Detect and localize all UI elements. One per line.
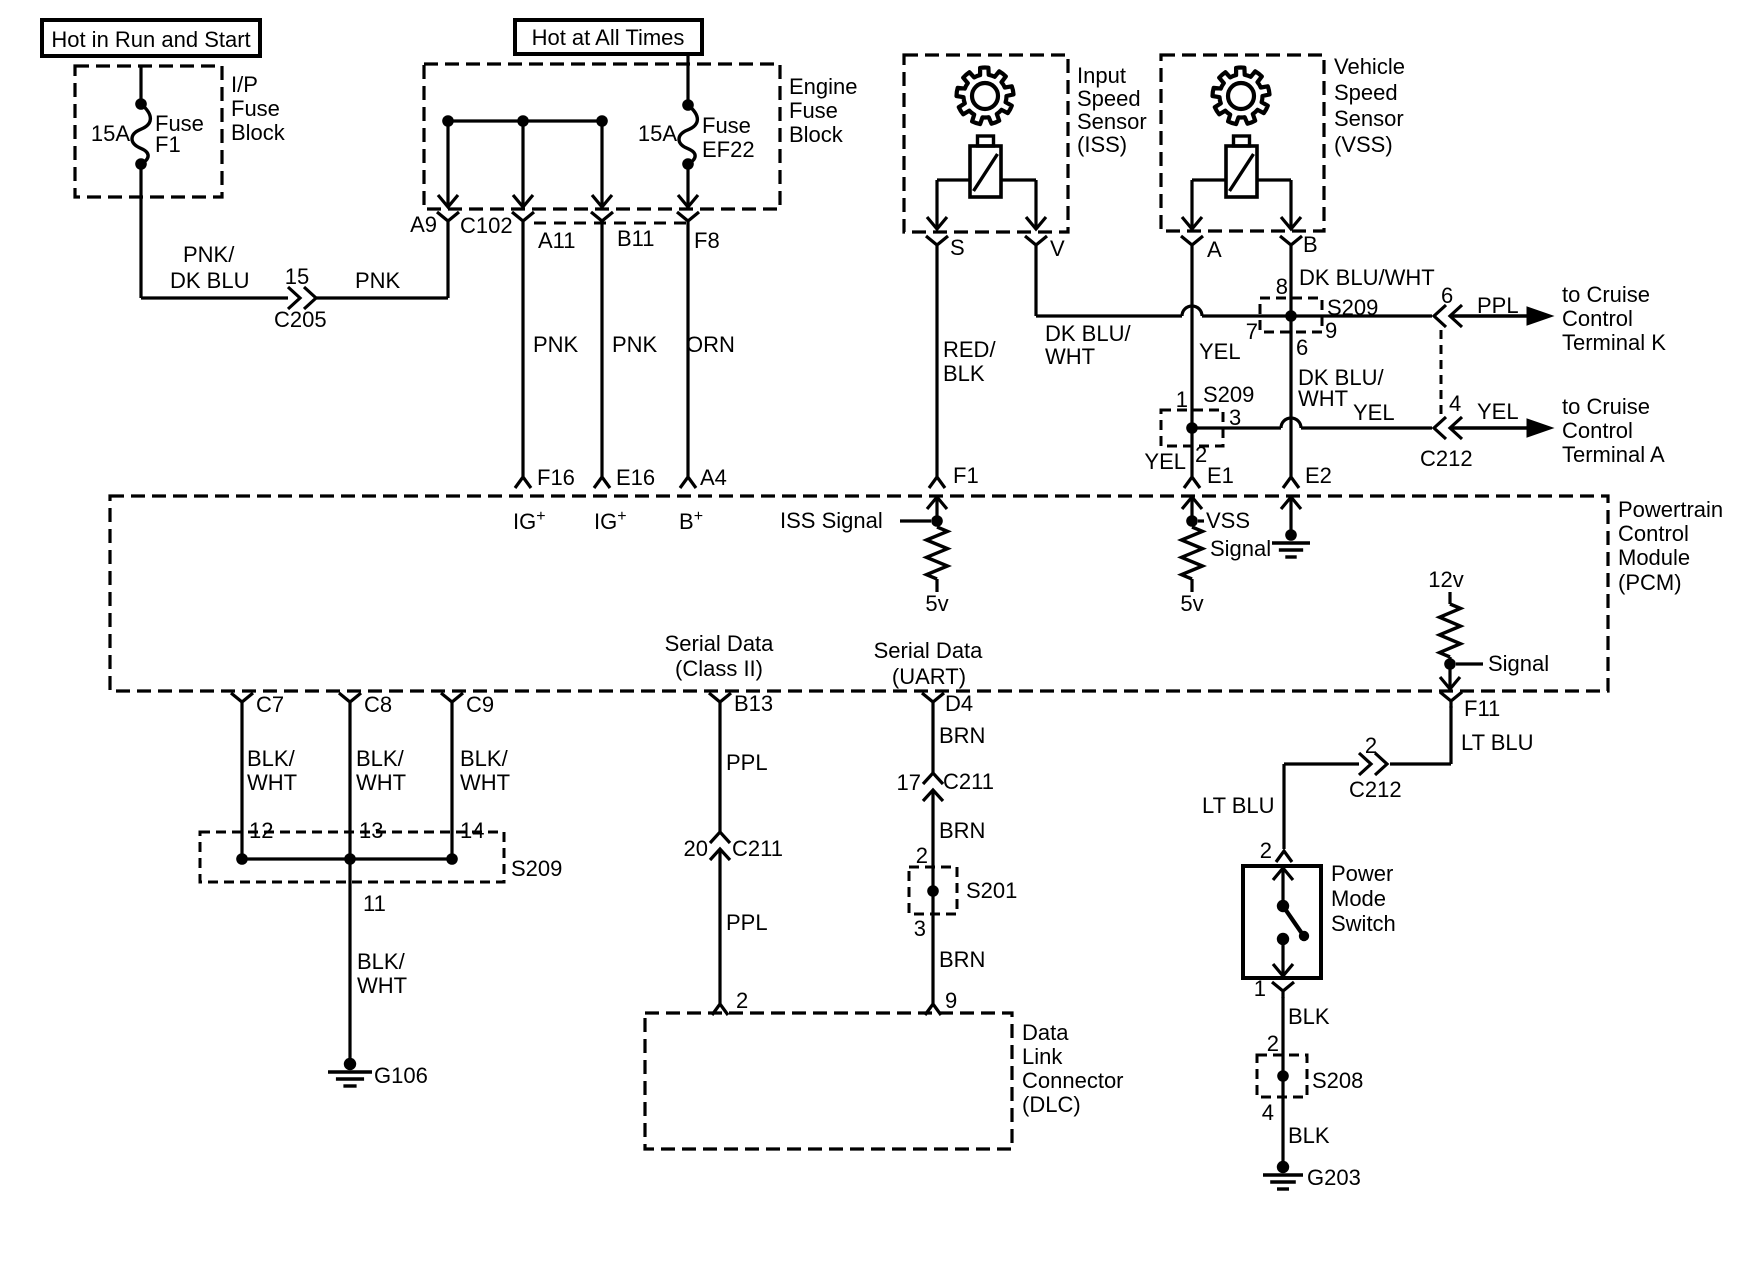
svg-text:Signal: Signal: [1488, 651, 1549, 676]
resistor 12v pullup: [1440, 604, 1461, 657]
wire BRN S201 to DLC: [931, 891, 934, 999]
Data Link Connector dashed box: [645, 1013, 1012, 1149]
svg-text:F1: F1: [953, 463, 979, 488]
svg-text:Hot at All Times: Hot at All Times: [532, 25, 685, 50]
svg-text:to Cruise: to Cruise: [1562, 282, 1650, 307]
label B11: [617, 226, 655, 251]
label 9 pin DLC: [945, 988, 957, 1013]
wire RED/BLK S to F1: [935, 252, 938, 472]
connector pin F16: [515, 472, 531, 488]
svg-text:Sensor: Sensor: [1334, 106, 1404, 131]
svg-text:S209: S209: [511, 856, 562, 881]
label B13: [734, 691, 773, 716]
wire PPL B13 upper: [718, 709, 721, 832]
splice S209 main dashed box: [200, 832, 504, 882]
svg-text:PNK: PNK: [612, 332, 658, 357]
switch arrow out: [1273, 939, 1293, 976]
svg-text:WHT: WHT: [356, 770, 406, 795]
svg-text:PNK: PNK: [533, 332, 579, 357]
svg-text:11: 11: [363, 891, 386, 916]
label 5v F1: [925, 591, 948, 616]
resistor 5v pullup F1: [927, 527, 948, 592]
svg-text:LT BLU: LT BLU: [1202, 793, 1275, 818]
svg-text:2: 2: [1365, 733, 1377, 758]
label Fuse EF22: [702, 113, 755, 162]
wire PPL B13 lower: [718, 849, 721, 999]
svg-text:S209: S209: [1203, 382, 1254, 407]
label BRN mid: [939, 818, 985, 843]
svg-text:(Class II): (Class II): [675, 656, 763, 681]
wire BLK switch to S208: [1281, 997, 1284, 1076]
svg-text:A11: A11: [538, 228, 576, 253]
connector pin 9 DLC: [925, 999, 941, 1015]
arrow out of PCM at F11: [1440, 664, 1460, 689]
I/P Fuse Block dashed box: [75, 66, 222, 197]
label Fuse F1: [155, 111, 204, 157]
VSS sensor element: [1226, 136, 1257, 197]
svg-text:B: B: [1303, 232, 1318, 257]
svg-text:YEL: YEL: [1199, 339, 1241, 364]
svg-text:BLK: BLK: [1288, 1004, 1330, 1029]
label F1: [953, 463, 979, 488]
label BLK/WHT G106: [357, 949, 407, 998]
label ISS Signal: [780, 508, 883, 533]
svg-text:to Cruise: to Cruise: [1562, 394, 1650, 419]
svg-text:15: 15: [285, 264, 309, 289]
switch lever: [1283, 906, 1309, 941]
junction dot bus A11: [517, 115, 529, 127]
svg-text:2: 2: [916, 843, 928, 868]
svg-text:C211: C211: [732, 836, 783, 861]
label PNK/DK BLU: [170, 242, 249, 293]
wire 12v to resistor: [1448, 592, 1451, 604]
Engine Fuse Block dashed box: [424, 64, 780, 209]
connector C102 pin A11: [512, 212, 534, 228]
wire ISS Signal tick: [900, 519, 931, 522]
wire PNK B11 to E16: [600, 228, 603, 472]
label Input Speed Sensor (ISS): [1077, 63, 1147, 157]
svg-text:6: 6: [1441, 283, 1453, 308]
wire BLK/WHT to G106: [348, 859, 351, 1060]
label 2 pin C212: [1365, 733, 1377, 758]
label PPL upper: [726, 750, 768, 775]
label PNK wire F16: [533, 332, 579, 357]
svg-text:9: 9: [1325, 318, 1337, 343]
label S209 main: [511, 856, 562, 881]
label C212 cruise: [1420, 446, 1473, 471]
svg-text:YEL: YEL: [1477, 399, 1519, 424]
wire YEL splice to E1: [1190, 428, 1193, 472]
label S209 upper: [1327, 295, 1378, 320]
connector pin C7: [231, 693, 253, 709]
label 9 splice S209: [1325, 318, 1337, 343]
junction dot fuse F1 top: [135, 98, 147, 110]
fuse F1 element: [132, 104, 150, 164]
label 3 pin S201: [914, 916, 926, 941]
svg-text:(PCM): (PCM): [1618, 570, 1682, 595]
svg-text:5v: 5v: [1180, 591, 1203, 616]
wire YEL A to splice S209 lower: [1190, 252, 1193, 428]
label Serial Data Class II: [665, 631, 775, 681]
wire PNK A11 to F16: [521, 228, 524, 472]
splice S209 lower dashed box: [1161, 410, 1223, 446]
svg-text:PNK/: PNK/: [183, 242, 235, 267]
svg-text:Module: Module: [1618, 545, 1690, 570]
svg-text:Block: Block: [789, 122, 844, 147]
svg-text:G106: G106: [374, 1063, 428, 1088]
splice dot S209 upper: [1285, 310, 1297, 322]
connector C102 pin F8: [677, 212, 699, 228]
ISS sensor element: [970, 136, 1001, 197]
svg-text:Terminal K: Terminal K: [1562, 330, 1666, 355]
svg-text:BLK/: BLK/: [247, 746, 296, 771]
ground dot G203: [1277, 1161, 1289, 1173]
svg-text:Terminal A: Terminal A: [1562, 442, 1665, 467]
connector pin F1: [929, 472, 945, 488]
svg-text:Speed: Speed: [1334, 80, 1398, 105]
label S208: [1312, 1068, 1363, 1093]
splice dot S209 pin14: [446, 853, 458, 865]
label to Cruise Control Terminal A: [1562, 394, 1665, 467]
label C211 UART: [943, 769, 994, 794]
wire DK BLU/WHT S209 to C212 pin6: [1291, 314, 1432, 317]
svg-text:F1: F1: [155, 132, 181, 157]
svg-text:(VSS): (VSS): [1334, 132, 1393, 157]
label A: [1207, 237, 1222, 262]
switch arrow in: [1273, 868, 1293, 901]
wire BRN D4 upper: [931, 709, 934, 773]
svg-text:Signal: Signal: [1210, 536, 1271, 561]
label 6 below S209: [1296, 335, 1308, 360]
label A4: [700, 465, 727, 490]
label IG+ F16: [513, 508, 546, 534]
svg-text:C212: C212: [1420, 446, 1473, 471]
label 6 pin C212: [1441, 283, 1453, 308]
bus wire in engine fuse block: [448, 119, 602, 122]
svg-text:PPL: PPL: [726, 750, 768, 775]
ground symbol G106: [328, 1072, 372, 1086]
VSS gear icon: [1213, 67, 1270, 124]
splice dot S208: [1277, 1070, 1289, 1082]
label ORN wire A4: [686, 332, 735, 357]
svg-text:Fuse: Fuse: [231, 96, 280, 121]
svg-text:YEL: YEL: [1144, 449, 1186, 474]
svg-text:A: A: [1207, 237, 1222, 262]
connector C212 pin 6 chevrons: [1434, 305, 1462, 327]
bus wire splice S209: [242, 857, 452, 860]
label Vehicle Speed Sensor (VSS): [1334, 54, 1405, 157]
svg-text:3: 3: [914, 916, 926, 941]
junction dot fuse EF22 top: [682, 99, 694, 111]
svg-text:YEL: YEL: [1353, 400, 1395, 425]
label G106: [374, 1063, 428, 1088]
label BLK upper: [1288, 1004, 1330, 1029]
splice dot S209 lower: [1186, 422, 1198, 434]
label 2 pin S208: [1267, 1031, 1279, 1056]
svg-text:F11: F11: [1464, 696, 1500, 721]
junction dot bus B11: [596, 115, 608, 127]
svg-text:DK BLU/: DK BLU/: [1045, 321, 1131, 346]
connector C102 dashed line: [534, 222, 687, 225]
label RED/BLK: [943, 337, 996, 386]
connector C205 chevrons: [288, 287, 316, 309]
connector C212 dashed link: [1440, 330, 1443, 420]
connector pin A4: [680, 472, 696, 488]
junction dot F1 signal: [931, 515, 943, 527]
label 15A fuse EF22: [638, 121, 677, 146]
label I/P Fuse Block: [231, 72, 286, 145]
connector pin 1 switch: [1272, 982, 1294, 998]
svg-text:Switch: Switch: [1331, 911, 1396, 936]
arrow to Cruise Control Terminal K: [1452, 307, 1553, 325]
connector pin 2 switch: [1276, 851, 1292, 862]
svg-text:Serial Data: Serial Data: [874, 638, 984, 663]
connector pin E16: [594, 472, 610, 488]
header box: Hot in Run and Start: [42, 20, 260, 56]
label 2 pin E1: [1195, 442, 1207, 467]
label F11 pin: [1464, 696, 1500, 721]
wire ORN F8 to A4: [686, 228, 689, 472]
svg-text:7: 7: [1246, 319, 1258, 344]
label YEL wire A: [1199, 339, 1241, 364]
svg-text:Hot in Run and Start: Hot in Run and Start: [51, 27, 250, 52]
ISS gear icon: [957, 67, 1014, 124]
svg-text:Connector: Connector: [1022, 1068, 1124, 1093]
svg-text:(DLC): (DLC): [1022, 1092, 1081, 1117]
label Serial Data UART: [874, 638, 984, 689]
splice dot S209 pin12: [236, 853, 248, 865]
svg-text:Vehicle: Vehicle: [1334, 54, 1405, 79]
svg-text:2: 2: [1260, 838, 1272, 863]
connector C211 pin17 chevrons: [923, 773, 943, 801]
wire fuse EF22 to F8: [678, 164, 698, 207]
label 4 pin S208: [1262, 1100, 1274, 1125]
label LT BLU left: [1202, 793, 1275, 818]
svg-text:1: 1: [1254, 976, 1266, 1001]
svg-text:F16: F16: [537, 465, 575, 490]
label C205: [274, 307, 327, 332]
switch contact upper dot: [1277, 900, 1289, 912]
svg-text:C205: C205: [274, 307, 327, 332]
svg-text:B13: B13: [734, 691, 773, 716]
label G203: [1307, 1165, 1361, 1190]
svg-text:WHT: WHT: [357, 973, 407, 998]
label 20 pin C211: [684, 836, 708, 861]
svg-text:Data: Data: [1022, 1020, 1069, 1045]
resistor 5v pullup E1: [1182, 527, 1203, 592]
junction dot bus A9: [442, 115, 454, 127]
label S209 lower: [1203, 382, 1254, 407]
connector pin E1: [1184, 472, 1200, 488]
wire BLK/WHT C9: [450, 709, 453, 859]
wire fuse F1 top lead: [139, 66, 142, 104]
wire LT BLU horizontal right: [1390, 762, 1451, 765]
connector pin A: [1181, 236, 1203, 252]
svg-text:ISS Signal: ISS Signal: [780, 508, 883, 533]
label BLK/WHT C9: [460, 746, 510, 795]
label C212 switch: [1349, 777, 1402, 802]
label 17 pin C211: [897, 770, 921, 795]
svg-text:1: 1: [1176, 387, 1188, 412]
svg-text:Control: Control: [1562, 418, 1633, 443]
label B: [1303, 232, 1318, 257]
wire LT BLU horizontal left: [1284, 764, 1359, 849]
svg-text:(UART): (UART): [892, 664, 966, 689]
svg-text:C102: C102: [460, 213, 513, 238]
junction dot fuse F1 bottom: [135, 158, 147, 170]
Power Mode Switch box: [1243, 866, 1321, 978]
svg-text:C9: C9: [466, 692, 494, 717]
label PPL: [1477, 293, 1519, 318]
svg-text:BRN: BRN: [939, 947, 985, 972]
connector C102 pin A9: [437, 212, 459, 228]
wire BLK S208 to G203: [1281, 1076, 1284, 1162]
label 5v E1: [1180, 591, 1203, 616]
connector pin F11: [1440, 692, 1462, 708]
svg-text:20: 20: [684, 836, 708, 861]
label 1 pin switch: [1254, 976, 1266, 1001]
svg-text:WHT: WHT: [1045, 344, 1095, 369]
label YEL right of C212: [1477, 399, 1519, 424]
svg-text:12v: 12v: [1428, 567, 1463, 592]
wire PNK to A9: [316, 228, 448, 298]
svg-text:BRN: BRN: [939, 818, 985, 843]
svg-text:I/P: I/P: [231, 72, 258, 97]
svg-text:WHT: WHT: [1298, 386, 1348, 411]
svg-text:BLK/: BLK/: [356, 746, 405, 771]
junction dot fuse EF22 bottom: [682, 158, 694, 170]
label C9: [466, 692, 494, 717]
svg-text:17: 17: [897, 770, 921, 795]
label 1 splice S209 lower: [1176, 387, 1188, 412]
svg-text:Power: Power: [1331, 861, 1393, 886]
svg-text:Powertrain: Powertrain: [1618, 497, 1723, 522]
VSS wiring to pins: [1182, 180, 1301, 229]
label F8: [694, 228, 720, 253]
svg-text:15A: 15A: [91, 121, 130, 146]
svg-text:PPL: PPL: [726, 910, 768, 935]
wire bus to A11 pin: [513, 121, 533, 207]
wire PNK/DK BLU horizontal: [141, 296, 288, 299]
label BLK/WHT C7: [247, 746, 297, 795]
label LT BLU right: [1461, 730, 1534, 755]
fuse EF22 element: [679, 105, 697, 164]
svg-text:V: V: [1050, 236, 1065, 261]
svg-text:B11: B11: [617, 226, 655, 251]
splice S209 upper dashed box: [1260, 298, 1322, 332]
connector C212 pin2 chevrons: [1359, 753, 1387, 775]
svg-text:Engine: Engine: [789, 74, 858, 99]
svg-text:Speed: Speed: [1077, 86, 1141, 111]
arrow into PCM at F1: [927, 497, 947, 521]
splice S201 dashed box: [909, 867, 957, 914]
label BRN lower: [939, 947, 985, 972]
wire resistor to signal dot: [1448, 657, 1451, 664]
label YEL left of C212: [1353, 400, 1395, 425]
label 3 splice S209 lower: [1229, 405, 1241, 430]
connector pin B13: [709, 693, 731, 709]
svg-text:LT BLU: LT BLU: [1461, 730, 1534, 755]
wire LT BLU from F11: [1449, 706, 1452, 764]
label YEL below splice: [1144, 449, 1186, 474]
connector pin 2 DLC: [712, 999, 728, 1015]
svg-text:C8: C8: [364, 692, 392, 717]
label Powertrain Control Module (PCM): [1618, 497, 1723, 595]
splice dot S209 pin13: [344, 853, 356, 865]
svg-text:4: 4: [1262, 1100, 1274, 1125]
svg-text:E16: E16: [616, 465, 655, 490]
label C7: [256, 692, 284, 717]
wire BLK/WHT C8: [348, 709, 351, 859]
arrow into PCM at E2: [1281, 497, 1301, 535]
svg-text:Block: Block: [231, 120, 286, 145]
label 2 pin DLC: [736, 988, 748, 1013]
connector pin B: [1280, 236, 1302, 252]
VSS dashed box: [1161, 55, 1324, 231]
wire hot feed into engine fuse block: [686, 54, 689, 105]
svg-text:E2: E2: [1305, 463, 1332, 488]
svg-text:E1: E1: [1207, 463, 1234, 488]
svg-text:Control: Control: [1562, 306, 1633, 331]
svg-text:BLK: BLK: [943, 361, 985, 386]
wire BLK/WHT C7: [240, 709, 243, 859]
splice S208 dashed box: [1257, 1055, 1307, 1097]
svg-text:VSS: VSS: [1206, 508, 1250, 533]
ISS dashed box: [904, 55, 1068, 232]
label V: [1050, 236, 1065, 261]
svg-text:3: 3: [1229, 405, 1241, 430]
label 8 splice S209: [1276, 274, 1288, 299]
label 4 pin C212: [1449, 391, 1461, 416]
label Signal F11: [1456, 651, 1549, 676]
wire DK BLU/WHT B down to E2: [1289, 252, 1292, 472]
svg-text:Serial Data: Serial Data: [665, 631, 775, 656]
svg-text:6: 6: [1296, 335, 1308, 360]
junction dot E1 signal: [1186, 515, 1198, 527]
label PPL lower: [726, 910, 768, 935]
label 2 pin S201: [916, 843, 928, 868]
svg-text:Mode: Mode: [1331, 886, 1386, 911]
label IG+ E16: [594, 508, 627, 534]
hop YEL over B wire: [1281, 418, 1301, 428]
label BLK lower: [1288, 1123, 1330, 1148]
label S: [950, 235, 965, 260]
label 15 pin C205: [285, 264, 309, 289]
hop over YEL wire: [1182, 306, 1202, 316]
svg-text:G203: G203: [1307, 1165, 1361, 1190]
svg-text:(ISS): (ISS): [1077, 132, 1127, 157]
label VSS Signal: [1198, 508, 1271, 561]
arrow into PCM at E1: [1182, 497, 1202, 521]
svg-text:C7: C7: [256, 692, 284, 717]
svg-text:Control: Control: [1618, 521, 1689, 546]
svg-text:2: 2: [1267, 1031, 1279, 1056]
svg-text:D4: D4: [945, 691, 973, 716]
label A11: [538, 228, 576, 253]
label 14 pin S209: [460, 818, 484, 843]
wire DK BLU/WHT to S209: [1202, 314, 1291, 317]
switch contact lower dot: [1277, 933, 1289, 945]
svg-text:BLK/: BLK/: [357, 949, 406, 974]
label 7 splice S209: [1246, 319, 1258, 344]
label PNK after C205: [355, 268, 401, 293]
svg-text:Fuse: Fuse: [789, 98, 838, 123]
svg-text:RED/: RED/: [943, 337, 996, 362]
wire from fuse F1 down: [139, 164, 142, 298]
wire YEL splice to hop: [1192, 426, 1281, 429]
label 15A fuse F1: [91, 121, 130, 146]
label F16: [537, 465, 575, 490]
